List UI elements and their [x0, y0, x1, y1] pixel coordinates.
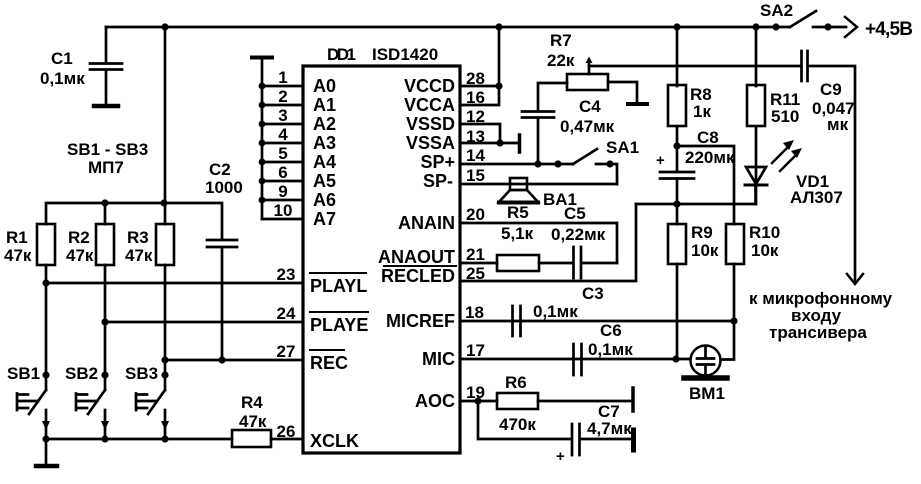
svg-text:A2: A2	[313, 114, 336, 134]
svg-text:A6: A6	[313, 190, 336, 210]
svg-text:1000: 1000	[205, 178, 243, 197]
svg-text:R3: R3	[127, 228, 149, 247]
svg-text:510: 510	[771, 107, 799, 126]
svg-text:47к: 47к	[4, 246, 32, 265]
svg-text:SA1: SA1	[606, 138, 639, 157]
svg-text:R9: R9	[691, 223, 713, 242]
svg-text:C8: C8	[697, 128, 719, 147]
svg-text:MICREF: MICREF	[386, 311, 455, 331]
svg-text:SB1: SB1	[7, 364, 40, 383]
svg-text:VCCD: VCCD	[404, 76, 455, 96]
svg-text:0,22мк: 0,22мк	[551, 225, 606, 244]
svg-text:12: 12	[466, 107, 485, 126]
svg-text:0,1мк: 0,1мк	[533, 302, 578, 321]
svg-text:ANAOUT: ANAOUT	[378, 247, 455, 267]
svg-text:R10: R10	[749, 223, 780, 242]
svg-text:SB1 - SB3: SB1 - SB3	[67, 140, 148, 159]
svg-text:A0: A0	[313, 76, 336, 96]
svg-text:26: 26	[277, 422, 296, 441]
svg-text:SB3: SB3	[125, 364, 158, 383]
svg-text:19: 19	[466, 383, 485, 402]
svg-text:+: +	[556, 448, 565, 465]
svg-text:ANAIN: ANAIN	[398, 213, 455, 233]
svg-text:SA2: SA2	[760, 1, 793, 20]
svg-text:6: 6	[278, 163, 287, 182]
svg-text:21: 21	[466, 245, 485, 264]
svg-text:MIC: MIC	[422, 349, 455, 369]
svg-text:10к: 10к	[751, 241, 779, 260]
svg-text:R4: R4	[241, 393, 263, 412]
svg-text:АЛ307: АЛ307	[790, 188, 843, 207]
svg-text:A4: A4	[313, 152, 336, 172]
svg-text:C4: C4	[579, 97, 601, 116]
svg-text:10: 10	[274, 201, 293, 220]
svg-text:15: 15	[466, 166, 485, 185]
svg-text:PLAYE: PLAYE	[310, 315, 368, 335]
svg-text:+: +	[656, 152, 665, 169]
svg-text:1к: 1к	[693, 102, 711, 121]
svg-text:R6: R6	[505, 373, 527, 392]
svg-text:AOC: AOC	[415, 391, 455, 411]
svg-text:4,7мк: 4,7мк	[587, 419, 632, 438]
svg-text:PLAYL: PLAYL	[310, 276, 367, 296]
svg-text:A3: A3	[313, 133, 336, 153]
svg-text:МП7: МП7	[88, 158, 124, 177]
svg-text:R2: R2	[68, 228, 90, 247]
svg-text:23: 23	[277, 265, 296, 284]
svg-text:VCCA: VCCA	[404, 95, 455, 115]
svg-text:DD1: DD1	[327, 45, 356, 64]
svg-text:R5: R5	[507, 203, 529, 222]
svg-text:2: 2	[278, 87, 287, 106]
svg-text:25: 25	[466, 264, 485, 283]
svg-text:0,1мк: 0,1мк	[40, 69, 85, 88]
svg-text:VSSA: VSSA	[406, 133, 455, 153]
svg-text:4: 4	[278, 125, 288, 144]
svg-text:47к: 47к	[66, 246, 94, 265]
svg-text:VSSD: VSSD	[406, 114, 455, 134]
svg-text:C3: C3	[582, 284, 604, 303]
svg-text:3: 3	[278, 106, 287, 125]
svg-text:SP-: SP-	[423, 171, 453, 191]
svg-text:C2: C2	[209, 160, 231, 179]
svg-text:A7: A7	[313, 209, 336, 229]
svg-text:0,1мк: 0,1мк	[588, 340, 633, 359]
svg-text:47к: 47к	[125, 246, 153, 265]
svg-text:A1: A1	[313, 95, 336, 115]
svg-text:C5: C5	[564, 204, 586, 223]
svg-text:24: 24	[277, 304, 296, 323]
svg-text:SB2: SB2	[65, 364, 98, 383]
svg-text:27: 27	[277, 342, 296, 361]
svg-text:5,1к: 5,1к	[501, 224, 534, 243]
svg-text:220мк: 220мк	[685, 148, 735, 167]
svg-text:C6: C6	[600, 321, 622, 340]
svg-text:R7: R7	[550, 31, 572, 50]
svg-text:470к: 470к	[499, 415, 536, 434]
svg-text:18: 18	[465, 303, 484, 322]
svg-text:0,47мк: 0,47мк	[560, 117, 615, 136]
svg-text:9: 9	[278, 182, 287, 201]
svg-text:C1: C1	[51, 49, 73, 68]
svg-text:10к: 10к	[691, 241, 719, 260]
svg-text:22к: 22к	[547, 51, 575, 70]
svg-text:трансивера: трансивера	[769, 323, 867, 342]
svg-text:A5: A5	[313, 171, 336, 191]
svg-text:C9: C9	[820, 80, 842, 99]
svg-text:20: 20	[466, 205, 485, 224]
svg-text:13: 13	[466, 127, 485, 146]
svg-text:5: 5	[278, 144, 287, 163]
svg-text:REC: REC	[310, 353, 348, 373]
svg-text:RECLED: RECLED	[381, 266, 455, 286]
svg-text:17: 17	[466, 341, 485, 360]
svg-text:ISD1420: ISD1420	[372, 45, 438, 64]
svg-text:+4,5В: +4,5В	[865, 19, 913, 40]
svg-text:1: 1	[278, 68, 287, 87]
svg-text:28: 28	[466, 69, 485, 88]
svg-text:47к: 47к	[239, 412, 267, 431]
svg-text:мк: мк	[827, 115, 849, 134]
svg-text:R1: R1	[6, 228, 28, 247]
svg-text:14: 14	[466, 146, 485, 165]
svg-text:16: 16	[466, 88, 485, 107]
svg-text:SP+: SP+	[420, 152, 455, 172]
svg-text:XCLK: XCLK	[310, 431, 359, 451]
svg-text:BM1: BM1	[689, 384, 725, 403]
